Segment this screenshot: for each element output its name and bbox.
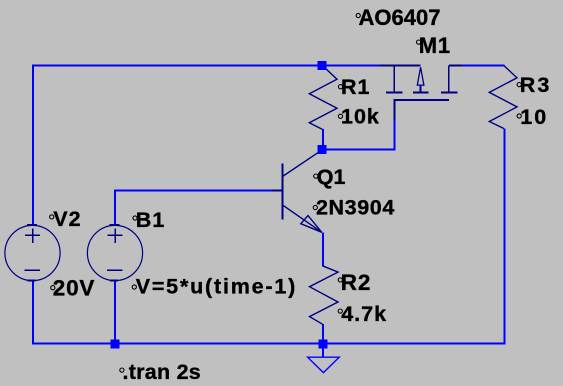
junction R1 top <box>318 61 327 70</box>
label R1 value 10k <box>338 105 379 129</box>
svg-text:.tran 2s: .tran 2s <box>123 360 201 384</box>
label R3 value 10 <box>517 105 548 129</box>
wire B1 top to Q1 base <box>115 191 273 227</box>
label B1 <box>133 208 166 232</box>
label M1 model AO6407 <box>356 5 440 30</box>
junction R2 bottom / ground <box>319 340 328 349</box>
label R2 <box>338 270 371 295</box>
wire M1 gate to R1 bottom node <box>323 119 395 150</box>
wire R1 bottom lead <box>322 129 324 150</box>
wire M1 drain to R3 <box>462 65 505 67</box>
svg-text:Q1: Q1 <box>317 165 346 189</box>
label R2 value 4.7k <box>338 302 387 326</box>
resistor R3 <box>489 66 517 129</box>
svg-text:2N3904: 2N3904 <box>316 196 395 220</box>
label B1 value V=5*u(time-1) <box>132 275 297 299</box>
svg-text:4.7k: 4.7k <box>341 302 387 326</box>
svg-text:R2: R2 <box>341 270 371 295</box>
label M1 <box>417 33 451 58</box>
label R3 <box>517 73 551 97</box>
ground <box>308 357 340 372</box>
svg-text:M1: M1 <box>419 33 451 58</box>
svg-text:R3: R3 <box>520 73 551 97</box>
behavioral voltage source B1 <box>87 225 142 281</box>
spice directive .tran 2s <box>120 360 201 384</box>
svg-text:R1: R1 <box>341 75 370 99</box>
wire Q1 emitter to R2 <box>322 233 324 267</box>
svg-text:B1: B1 <box>136 208 166 232</box>
svg-text:20V: 20V <box>53 276 95 301</box>
voltage source V2 <box>5 225 60 281</box>
svg-text:V=5*u(time-1): V=5*u(time-1) <box>136 275 297 299</box>
label V2 <box>50 207 82 231</box>
wire ground stub <box>322 344 324 357</box>
svg-text:10: 10 <box>520 105 548 129</box>
junction R1 bottom / Q1 collector <box>318 145 327 154</box>
pmos transistor M1 <box>380 66 462 121</box>
label Q1 <box>314 165 346 189</box>
resistor R1 <box>309 66 337 130</box>
label V2 value 20V <box>51 276 96 301</box>
svg-text:AO6407: AO6407 <box>359 5 441 30</box>
resistor R2 <box>310 266 339 324</box>
wire top rail and left rail to V2 <box>33 66 380 225</box>
junction B1 bottom <box>111 340 120 349</box>
npn transistor Q1 <box>272 150 323 233</box>
svg-text:10k: 10k <box>341 105 380 129</box>
wire B1 bottom lead <box>114 280 116 344</box>
label Q1 model 2N3904 <box>313 196 395 220</box>
wire bottom rail with V2 and R3 legs <box>33 129 505 344</box>
label R1 <box>338 75 370 99</box>
wire R2 bottom lead <box>322 324 324 344</box>
svg-text:V2: V2 <box>53 207 81 231</box>
